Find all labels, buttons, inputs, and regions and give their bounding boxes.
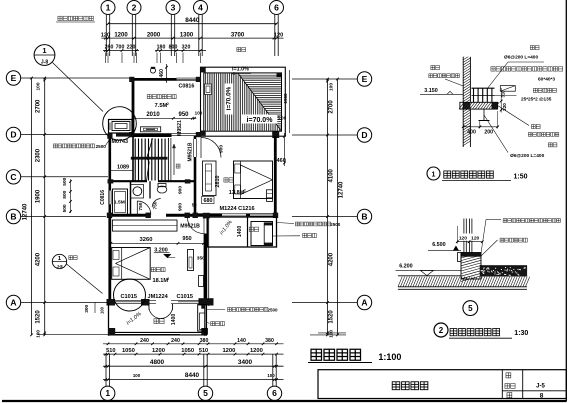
- svg-text:120: 120: [274, 32, 283, 38]
- dim 2300 left: [36, 148, 42, 162]
- stair hall west wall: [132, 136, 134, 181]
- grid stub line A right: [292, 302, 357, 304]
- svg-text:100: 100: [195, 111, 203, 116]
- d2 bubble 5: [463, 301, 478, 316]
- label shower 1.5M: [114, 200, 125, 206]
- dim 900 bath b: [177, 203, 183, 211]
- grid stub line D left: [21, 134, 108, 136]
- svg-text:1: 1: [106, 2, 111, 12]
- d1 dim 310: [501, 88, 506, 101]
- bedroom window C1216: [250, 214, 274, 217]
- svg-text:260: 260: [105, 45, 114, 51]
- svg-text:M1224 C1216: M1224 C1216: [220, 206, 255, 212]
- d1 text 25x25x2: [521, 96, 552, 101]
- svg-text:8440: 8440: [185, 372, 200, 379]
- d1 hanger: [479, 109, 490, 120]
- svg-text:1300: 1300: [180, 32, 194, 38]
- svg-text:i=70.0%: i=70.0%: [226, 86, 233, 110]
- svg-text:12740: 12740: [339, 181, 345, 198]
- svg-text:M0743: M0743: [112, 139, 128, 145]
- svg-text:800: 800: [62, 190, 68, 198]
- svg-text:120: 120: [471, 236, 479, 242]
- grid bubble 5 bottom: [198, 386, 212, 400]
- grid stub line E left: [21, 77, 131, 79]
- svg-text:120: 120: [459, 236, 467, 242]
- dim 350: [197, 255, 205, 261]
- dim 300 left balcony: [84, 303, 105, 315]
- page right border line: [565, 0, 567, 402]
- label bedroom area 13.8M2: [229, 188, 246, 195]
- svg-text:320: 320: [182, 45, 191, 51]
- bath partition west: [130, 181, 132, 215]
- title block J-5: [536, 383, 545, 389]
- grid line under bubble 2: [132, 15, 135, 56]
- bedroom door arc: [201, 138, 221, 159]
- d1 dim 400 200: [462, 111, 499, 136]
- label master bedroom: [151, 268, 165, 272]
- dim 100 study: [195, 111, 203, 116]
- slope label south balcony: [126, 311, 143, 326]
- svg-text:1: 1: [105, 388, 110, 398]
- callout bubble 1/J-8 mid: [52, 254, 77, 268]
- title block cell ye: [507, 393, 512, 398]
- dim 4200 right: [329, 252, 335, 266]
- label study area 7.5M2: [155, 102, 169, 109]
- d1 wall boundary: [463, 57, 470, 147]
- d1 leader top: [487, 62, 544, 89]
- svg-text:6.200: 6.200: [399, 263, 413, 269]
- west window dim 500/800/500: [62, 177, 72, 213]
- title block divider v2: [522, 370, 524, 399]
- d1 text handrail: [533, 88, 556, 92]
- svg-text:500: 500: [62, 177, 68, 185]
- d1 text row2: [491, 67, 563, 71]
- grid bubble 6 top: [270, 1, 284, 15]
- svg-text:2500: 2500: [268, 307, 279, 312]
- study dim line: [132, 117, 197, 120]
- title block cell tuhao: [505, 384, 515, 389]
- column west wall top: [107, 134, 112, 139]
- bedroom door M1224: [222, 214, 246, 216]
- roof corner column BR: [272, 132, 279, 139]
- grid bubble B left: [6, 209, 20, 223]
- dim 750 bath a: [138, 202, 144, 210]
- column balcony SW: [108, 328, 115, 335]
- AC detail circle: [103, 107, 137, 141]
- study south wall: [131, 133, 201, 136]
- leader AC text right2: [273, 233, 317, 237]
- svg-text:1200: 1200: [222, 348, 235, 354]
- svg-text:1900: 1900: [36, 189, 42, 203]
- dim 1520 right: [329, 310, 335, 324]
- d1 dim 220: [500, 100, 507, 113]
- svg-text:1:100: 1:100: [378, 352, 401, 362]
- svg-text:C0816: C0816: [179, 84, 195, 90]
- master north wardrobe: [112, 220, 177, 231]
- label M0750 vertical: [0, 0, 1, 1]
- label outdoor unit south: [207, 322, 225, 326]
- svg-text:C1015: C1015: [121, 294, 137, 300]
- bedroom south wall: [195, 213, 277, 216]
- svg-text:5: 5: [203, 388, 208, 398]
- AC unit outline: [110, 122, 130, 131]
- roof right extension line: [289, 70, 291, 133]
- svg-text:2: 2: [167, 102, 169, 106]
- roof dim 1500 right: [283, 93, 288, 104]
- study north wall: [131, 78, 201, 81]
- svg-text:C: C: [10, 172, 16, 182]
- stair right rail: [168, 138, 171, 181]
- dim row 260/700/220 180/800/320 top: [103, 45, 206, 52]
- label M9521B vertical: [187, 142, 193, 161]
- master west wall: [108, 217, 111, 301]
- bath partition mid: [149, 181, 151, 198]
- roof corner column TL: [201, 67, 206, 72]
- dim 1400 east balcony: [237, 226, 243, 238]
- master north wall: [108, 214, 110, 216]
- grid bubble 4 top: [194, 1, 208, 15]
- svg-text:4200: 4200: [329, 252, 335, 266]
- stair up label: [176, 164, 180, 168]
- svg-text:i=1.0%: i=1.0%: [232, 66, 249, 72]
- grid line under bubble 4: [199, 15, 202, 56]
- svg-text:510: 510: [106, 348, 115, 354]
- toilet: [157, 184, 167, 194]
- grid line under bubble 3: [171, 15, 174, 56]
- label study room: [147, 94, 176, 98]
- main title scale: [378, 352, 401, 362]
- svg-text:1500: 1500: [283, 93, 288, 104]
- svg-text:120: 120: [101, 32, 110, 38]
- svg-text:310: 310: [501, 90, 506, 98]
- bedroom east wall: [274, 136, 277, 217]
- svg-text:460: 460: [277, 158, 286, 164]
- svg-text:2000: 2000: [147, 32, 161, 38]
- left bottom stub line: [38, 333, 180, 335]
- title block frame: [318, 370, 566, 399]
- window C1015 right: [178, 300, 200, 303]
- title block divider h: [502, 390, 566, 392]
- svg-text:M9521B: M9521B: [180, 223, 200, 229]
- column south W: [107, 299, 116, 306]
- svg-text:1089: 1089: [117, 164, 129, 170]
- svg-text:1: 1: [42, 46, 46, 55]
- callout leader top: [53, 63, 104, 112]
- svg-text:100: 100: [36, 82, 42, 90]
- grid bubble E left: [6, 71, 20, 85]
- AC shelf box: [109, 120, 133, 134]
- d2 dim 120 120: [456, 226, 484, 244]
- dim 680 bath: [202, 197, 215, 204]
- grid bubble A right: [357, 295, 371, 309]
- svg-text:J-8: J-8: [41, 60, 48, 66]
- label M9521 vertical: [177, 120, 183, 136]
- svg-text:D: D: [10, 130, 16, 140]
- label AC shelf text top: [56, 16, 95, 22]
- bath door arc 2: [152, 199, 161, 208]
- master desk: [188, 250, 194, 271]
- dim row 510/1050/1200/1050/510/1200/1200 bottom: [103, 348, 284, 356]
- svg-text:2700: 2700: [36, 99, 42, 113]
- svg-text:460: 460: [159, 69, 165, 78]
- master east wall: [205, 217, 208, 306]
- svg-text:900: 900: [177, 186, 183, 194]
- dim 12740 left: [22, 203, 28, 220]
- bedroom desk: [267, 190, 273, 202]
- svg-text:2: 2: [132, 2, 137, 12]
- grid bubble C left: [6, 170, 20, 184]
- washbasin: [133, 187, 142, 196]
- main title text: [311, 349, 361, 360]
- bed (east bedroom): [234, 161, 273, 199]
- column bedroom SE: [273, 213, 278, 218]
- svg-text:220: 220: [127, 45, 136, 51]
- label balcony south: [154, 319, 164, 324]
- svg-text:2500: 2500: [330, 222, 341, 227]
- column bath N w: [108, 179, 114, 183]
- dim 8440 top: [107, 17, 278, 25]
- dim 1400 south balcony: [171, 314, 177, 326]
- leader AC text right1: [277, 222, 341, 227]
- grid bubble E right: [357, 72, 371, 86]
- grid line under bubble 1: [106, 15, 109, 56]
- d1 level 3.150: [420, 88, 463, 94]
- dim 2010 study: [146, 112, 160, 118]
- bedroom wardrobe: [203, 161, 217, 196]
- svg-text:500: 500: [62, 204, 68, 212]
- svg-text:1520: 1520: [329, 310, 335, 324]
- grid line under bubble 6: [275, 15, 278, 56]
- d1 leader bottom right: [484, 106, 529, 153]
- svg-text:750: 750: [152, 201, 158, 209]
- d1 leader left: [445, 79, 463, 86]
- label C0816 north: [179, 84, 195, 90]
- right dim chain line: [326, 78, 329, 337]
- d2 leader text2: [481, 238, 527, 256]
- column study SE: [196, 132, 201, 137]
- grid line above bubble 6: [273, 354, 276, 386]
- label chimney tiny: [237, 48, 246, 52]
- svg-text:B: B: [361, 212, 367, 222]
- grid stub line A left: [21, 302, 107, 304]
- svg-text:4800: 4800: [150, 359, 165, 366]
- roof slope label vertical i=70.0%: [224, 84, 233, 115]
- svg-text:510: 510: [199, 348, 208, 354]
- svg-text:2500: 2500: [96, 144, 107, 149]
- svg-text:1050: 1050: [181, 348, 194, 354]
- svg-text:800: 800: [169, 45, 178, 51]
- svg-text:3700: 3700: [231, 32, 245, 38]
- AC shelf bracket: [116, 133, 131, 136]
- dim micro row 240/240/380/140/380 bottom: [103, 338, 284, 345]
- roof hatch vertical (west slope): [206, 73, 280, 131]
- svg-text:8: 8: [540, 392, 544, 399]
- grid stub line B right: [292, 216, 357, 218]
- d1 text 60x40x3: [538, 77, 555, 83]
- svg-text:100: 100: [267, 373, 275, 378]
- dim 1900 left: [36, 189, 42, 203]
- svg-text:3400: 3400: [238, 359, 253, 366]
- stair break line: [147, 138, 153, 181]
- grid line above bubble 5: [204, 354, 207, 386]
- dim 50 tiny: [192, 203, 197, 208]
- svg-text:2: 2: [244, 188, 246, 192]
- label JM1224: [148, 294, 169, 300]
- column bath S mid: [146, 213, 151, 218]
- window JM1224 frame: [150, 300, 179, 303]
- slope label east balcony: [219, 219, 234, 236]
- svg-text:1200: 1200: [152, 348, 165, 354]
- dim 2700 right: [329, 100, 335, 114]
- title block cell kou: [506, 373, 511, 378]
- balcony bottom edge: [108, 332, 207, 335]
- svg-text:4100: 4100: [329, 168, 335, 182]
- d1 wall hatch: [461, 49, 472, 147]
- dim 100 right bottom: [329, 330, 334, 338]
- grid bubble D left: [6, 127, 20, 141]
- dim 750 bath b: [152, 201, 158, 209]
- column bedroom SW: [193, 213, 198, 218]
- roof gutter label i=1.0%: [231, 66, 251, 74]
- svg-text:1400: 1400: [237, 226, 243, 238]
- grid bubble A left: [6, 295, 20, 309]
- svg-text:C0816: C0816: [100, 190, 106, 205]
- svg-text:750: 750: [138, 202, 144, 210]
- svg-text:2: 2: [167, 277, 169, 281]
- grid stub line E right: [292, 78, 357, 80]
- svg-text:3.150: 3.150: [424, 88, 438, 94]
- roof text 5.000: [278, 116, 287, 121]
- svg-text:C1015: C1015: [177, 294, 193, 300]
- grid bubble 2 top: [127, 1, 141, 15]
- d1 text anchor2: [510, 143, 557, 159]
- dim 1520 left: [36, 310, 42, 324]
- stair top wall: [133, 135, 172, 137]
- d1 title: [427, 167, 528, 181]
- svg-text:100: 100: [100, 306, 105, 314]
- dim 460 bedroom right: [277, 133, 286, 166]
- title block name: [392, 382, 428, 390]
- svg-text:380: 380: [200, 338, 209, 344]
- svg-text:140: 140: [237, 338, 246, 344]
- dim 900 bath a: [177, 186, 183, 194]
- study west wall: [132, 78, 135, 136]
- svg-text:240: 240: [140, 338, 149, 344]
- svg-text:900: 900: [218, 145, 224, 153]
- window C0816 west: [108, 191, 111, 205]
- column bath SE: [185, 213, 190, 218]
- detail circle window SW: [114, 279, 146, 311]
- bedroom door M9521B opening: [194, 139, 197, 157]
- main title underline: [308, 362, 372, 364]
- column bath N e: [185, 179, 191, 183]
- dim 2700 left: [36, 99, 42, 113]
- column study SW: [129, 132, 134, 137]
- svg-text:8440: 8440: [185, 17, 200, 24]
- svg-text:JM1224: JM1224: [148, 294, 169, 300]
- window C0816 north: [177, 78, 197, 81]
- d1 shelf slab: [459, 102, 499, 109]
- svg-text:13.8M: 13.8M: [229, 190, 245, 196]
- svg-text:J-5: J-5: [536, 383, 545, 389]
- svg-text:B: B: [10, 212, 16, 222]
- balcony door arcs: [149, 304, 173, 319]
- east balcony outline: [208, 217, 277, 247]
- svg-text:A: A: [10, 298, 16, 308]
- svg-text:1:50: 1:50: [514, 173, 528, 180]
- label C1015 right: [177, 294, 193, 300]
- svg-text:300: 300: [84, 304, 90, 312]
- svg-text:2700: 2700: [329, 100, 335, 114]
- d1 text left anchor: [429, 66, 459, 78]
- column study NW: [129, 77, 134, 82]
- dim 950 study: [178, 112, 189, 118]
- d2 gravel band: [480, 266, 527, 277]
- svg-text:3260: 3260: [140, 237, 153, 243]
- bedroom west wall: [194, 136, 197, 217]
- svg-text:1: 1: [432, 171, 436, 178]
- svg-text:180: 180: [157, 45, 166, 51]
- d2 door frame lines: [464, 219, 472, 253]
- balcony AC unit: [198, 305, 207, 332]
- svg-text:1050: 1050: [122, 348, 135, 354]
- svg-text:Ø6@200 L=400: Ø6@200 L=400: [510, 153, 544, 159]
- left dim chain line: [43, 77, 46, 337]
- stair treads: [135, 139, 165, 181]
- left overall chain 12740: [30, 77, 33, 337]
- svg-text:1200: 1200: [114, 32, 128, 38]
- stair up arrow: [172, 144, 175, 175]
- grid bubble 1 top: [101, 1, 115, 15]
- label C0816 west vertical: [100, 190, 106, 205]
- dim 100 left bottom: [36, 330, 41, 338]
- d2 level 6.500: [428, 242, 461, 250]
- svg-text:5.00: 5.00: [278, 116, 287, 121]
- dim 8440 bottom: [103, 372, 284, 381]
- svg-text:400: 400: [467, 130, 476, 136]
- grid stub line D right: [292, 134, 357, 136]
- svg-text:1.5M: 1.5M: [114, 200, 125, 206]
- d1 railing bars: [472, 88, 495, 102]
- svg-text:6.500: 6.500: [432, 242, 446, 248]
- svg-text:E: E: [11, 73, 17, 83]
- roof corner column BL: [201, 131, 206, 136]
- grid bubble D right: [357, 128, 371, 142]
- dim 4200 left: [36, 252, 42, 266]
- window C1015 left: [115, 300, 141, 303]
- grid stub line C left: [21, 176, 108, 178]
- svg-text:D: D: [361, 130, 367, 140]
- svg-text:200: 200: [484, 130, 493, 136]
- right overall chain 12740: [336, 78, 339, 337]
- svg-text:A: A: [361, 298, 367, 308]
- d1 leader right mid: [495, 95, 517, 97]
- svg-text:2010: 2010: [146, 112, 160, 118]
- grid bubble 1 bottom: [101, 386, 115, 400]
- svg-text:900: 900: [177, 203, 183, 211]
- level 3.200 marker: [154, 247, 175, 257]
- column south mid: [141, 299, 150, 306]
- leader AC text south: [207, 307, 284, 313]
- dim 100 left top: [36, 82, 42, 90]
- svg-text:7.5M: 7.5M: [155, 103, 168, 109]
- svg-text:6: 6: [274, 2, 279, 12]
- svg-text:J-8: J-8: [56, 264, 63, 269]
- svg-text:950: 950: [182, 236, 191, 242]
- west wall lower: [109, 204, 112, 217]
- master bed: [112, 248, 151, 280]
- master door opening: [204, 218, 207, 234]
